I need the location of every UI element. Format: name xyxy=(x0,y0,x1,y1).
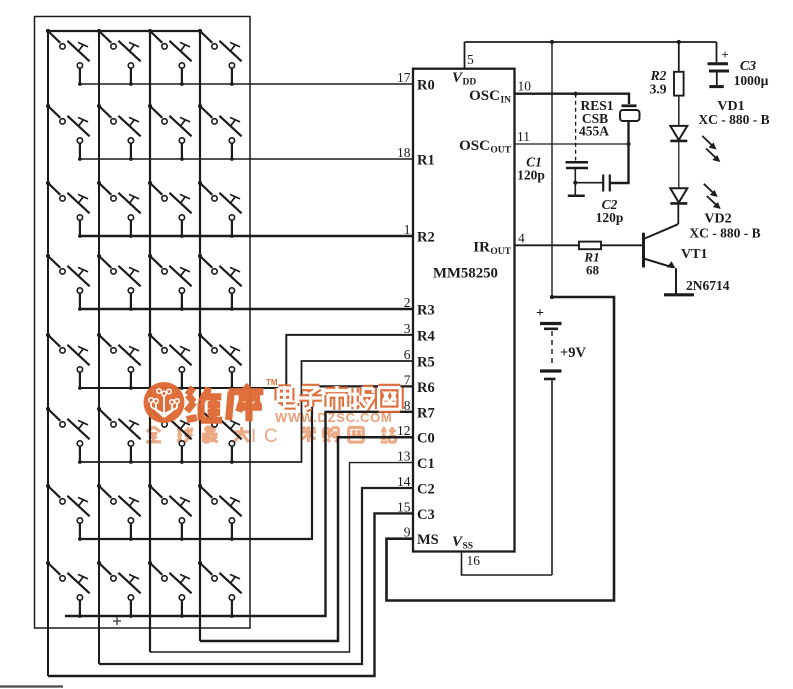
svg-text:R0: R0 xyxy=(417,78,435,94)
svg-text:R7: R7 xyxy=(417,405,435,421)
svg-text:2N6714: 2N6714 xyxy=(686,278,730,293)
switch keypad row7 col2 xyxy=(97,484,141,541)
wire - supply drop to battery plus xyxy=(551,42,553,297)
capacitor C3 1000u polarized xyxy=(708,64,730,87)
switch keypad row2 col3 xyxy=(148,104,192,161)
node - battery plus junction on VDD rail xyxy=(550,40,554,44)
switch keypad row2 col4 xyxy=(198,104,242,161)
transistor VT1 2N6714 xyxy=(644,224,695,294)
svg-text:3.9: 3.9 xyxy=(650,82,667,97)
wire - OSCIN pin 10 to resonator xyxy=(515,94,630,104)
wire - matrix column line 1 xyxy=(47,31,49,676)
switch keypad row8 col1 xyxy=(46,561,90,618)
wire - MS pin to +9V rail wrap xyxy=(387,297,615,601)
svg-text:R3: R3 xyxy=(417,303,435,319)
wire - row 4 bus to IC pin xyxy=(80,308,413,310)
svg-text:7: 7 xyxy=(404,372,411,387)
wire - row 6 bus wrap to IC xyxy=(80,361,413,462)
resonator RES1 CSB455A xyxy=(620,106,640,121)
svg-text:VT1: VT1 xyxy=(681,247,707,262)
switch keypad row8 col2 xyxy=(97,561,141,618)
svg-text:455A: 455A xyxy=(579,124,609,139)
op-chip U1 MM58250 body xyxy=(413,69,515,552)
resistor R2 3.9 xyxy=(674,42,684,126)
switch keypad row2 col1 xyxy=(46,104,90,161)
svg-text:XC - 880 - B: XC - 880 - B xyxy=(698,112,769,127)
switch keypad row6 col3 xyxy=(148,407,192,464)
svg-text:120p: 120p xyxy=(596,210,624,225)
wire - VDD rail to C3 xyxy=(716,42,718,62)
keyboard matrix outer frame xyxy=(35,17,251,629)
svg-text:5: 5 xyxy=(467,52,474,67)
pin 5 VDD riser wire xyxy=(464,42,466,69)
svg-text:2: 2 xyxy=(404,295,411,310)
switch keypad row5 col3 xyxy=(148,333,192,390)
wire - row 3 bus to IC pin xyxy=(80,235,413,237)
watermark dzsc logo and title xyxy=(144,378,401,423)
emission arrows VD2 xyxy=(704,184,721,209)
svg-text:VD2: VD2 xyxy=(704,212,731,227)
node - battery plus junction xyxy=(550,295,554,299)
node - OSCOUT junction xyxy=(626,142,630,146)
capacitor C1 120p xyxy=(566,162,589,182)
node - column 2 top junction xyxy=(97,29,101,33)
svg-text:C0: C0 xyxy=(417,431,435,447)
battery B1 +9V xyxy=(540,324,562,380)
wire - matrix column line 3 xyxy=(149,31,151,652)
switch keypad row4 col1 xyxy=(46,254,90,311)
wire - resonator bottom to C2 right xyxy=(610,121,629,183)
switch keypad row5 col2 xyxy=(97,333,141,390)
switch keypad row3 col4 xyxy=(198,181,242,238)
switch keypad row8 col3 xyxy=(148,561,192,618)
switch keypad row3 col1 xyxy=(46,181,90,238)
switch keypad row1 col2 xyxy=(99,31,141,86)
switch keypad row6 col2 xyxy=(97,407,141,464)
wire - column 1 wrap-around to IC pin xyxy=(48,513,413,676)
wire - matrix top bus connecting column tops xyxy=(48,30,200,32)
wire - row 5 bus wrap to IC xyxy=(80,335,413,388)
switch keypad row7 col4 xyxy=(198,484,242,541)
wire - dashed drop OSCIN to C1 xyxy=(575,94,577,161)
resistor R1 68 xyxy=(579,242,601,250)
wire - column 4 wrap-around to IC pin xyxy=(200,437,413,641)
wire - row 7 bus wrap to IC xyxy=(80,386,413,539)
svg-text:11: 11 xyxy=(517,129,530,144)
svg-text:13: 13 xyxy=(397,449,411,464)
wire - VD1 cathode to VD2 anode xyxy=(678,141,680,188)
svg-text:68: 68 xyxy=(586,263,600,278)
svg-text:I: I xyxy=(251,426,256,447)
switch keypad row1 col4 xyxy=(200,31,242,86)
svg-text:1000µ: 1000µ xyxy=(734,73,769,88)
svg-text:+: + xyxy=(722,48,729,62)
wire - junction to C2 left plate xyxy=(575,182,603,184)
svg-text:R6: R6 xyxy=(417,380,435,396)
svg-text:9: 9 xyxy=(404,525,411,540)
wire - column 2 wrap-around to IC pin xyxy=(99,488,413,664)
svg-text:120p: 120p xyxy=(517,168,545,183)
svg-text:R2: R2 xyxy=(417,230,435,246)
switch keypad row5 col4 xyxy=(198,333,242,390)
wire - row 8 bus wrap to IC xyxy=(65,412,413,616)
svg-text:17: 17 xyxy=(397,70,411,85)
switch keypad row1 col1 xyxy=(48,31,90,86)
switch keypad row6 col4 xyxy=(198,407,242,464)
wire - row 1 bus to IC pin xyxy=(80,83,413,85)
wire - row 2 bus to IC pin xyxy=(80,158,413,160)
svg-text:R1: R1 xyxy=(417,153,435,169)
node - R2 junction on VDD rail xyxy=(677,40,681,44)
wire - matrix column line 2 xyxy=(98,31,100,664)
svg-text:C3: C3 xyxy=(417,507,435,523)
switch keypad row4 col3 xyxy=(148,254,192,311)
wire - R1 to VT1 base xyxy=(601,244,642,246)
switch keypad row3 col2 xyxy=(97,181,141,238)
switch keypad row5 col1 xyxy=(46,333,90,390)
switch keypad row4 col4 xyxy=(198,254,242,311)
svg-text:12: 12 xyxy=(397,423,411,438)
svg-text:R5: R5 xyxy=(417,355,435,371)
svg-text:XC - 880 - B: XC - 880 - B xyxy=(689,226,760,241)
switch keypad row1 col3 xyxy=(150,31,192,86)
node - column 4 top junction xyxy=(198,29,202,33)
switch keypad row2 col2 xyxy=(97,104,141,161)
node - C1 C2 junction xyxy=(573,181,577,185)
svg-text:C3: C3 xyxy=(740,59,756,74)
svg-text:8: 8 xyxy=(404,398,411,413)
wire - matrix column line 4 xyxy=(199,31,201,641)
svg-text:+: + xyxy=(536,306,544,321)
svg-text:16: 16 xyxy=(467,553,481,568)
capacitor C2 120p xyxy=(603,175,610,192)
svg-text:MS: MS xyxy=(417,532,439,548)
svg-text:MM58250: MM58250 xyxy=(433,266,498,282)
plus mark scan speck xyxy=(113,620,121,622)
emission arrows VD1 xyxy=(702,136,720,162)
svg-text:15: 15 xyxy=(397,499,411,514)
switch keypad row3 col3 xyxy=(148,181,192,238)
svg-text:10: 10 xyxy=(518,79,532,94)
svg-text:R4: R4 xyxy=(417,328,435,344)
svg-text:1: 1 xyxy=(404,222,411,237)
switch keypad row6 col1 xyxy=(46,407,90,464)
svg-text:6: 6 xyxy=(404,347,411,362)
svg-text:TM: TM xyxy=(266,378,278,387)
LED VD2 XC-880-B xyxy=(670,188,687,203)
wire - OSCOUT pin 11 xyxy=(515,143,629,145)
wire - IROUT pin 4 to R1 xyxy=(515,244,580,246)
scan artifact bottom-left edge xyxy=(0,685,63,687)
ground stub below C1 C2 junction xyxy=(568,183,585,196)
switch keypad row8 col4 xyxy=(198,561,242,618)
wire - column 3 wrap-around to IC pin xyxy=(150,463,413,652)
wire - VSS pin 16 to battery minus xyxy=(462,552,553,576)
svg-text:3: 3 xyxy=(404,321,411,336)
node - column 1 top junction xyxy=(46,29,50,33)
switch keypad row7 col1 xyxy=(46,484,90,541)
svg-text:4: 4 xyxy=(518,230,525,245)
switch keypad row7 col3 xyxy=(148,484,192,541)
svg-text:C2: C2 xyxy=(417,482,435,498)
wire - VD2 cathode to collector xyxy=(677,204,679,225)
svg-text:C: C xyxy=(264,426,278,447)
switch keypad row4 col2 xyxy=(97,254,141,311)
svg-text:18: 18 xyxy=(397,145,411,160)
node - column 3 top junction xyxy=(148,29,152,33)
svg-text:+9V: +9V xyxy=(560,345,587,361)
wire - battery minus lead down xyxy=(551,381,553,576)
watermark dzsc url and slogan xyxy=(146,410,396,447)
LED VD1 XC-880-B xyxy=(670,126,687,141)
node - OSCIN junction to C1 xyxy=(574,92,578,96)
svg-text:14: 14 xyxy=(397,474,411,489)
wire - VDD top supply rail xyxy=(465,41,717,43)
svg-text:C1: C1 xyxy=(417,456,435,472)
